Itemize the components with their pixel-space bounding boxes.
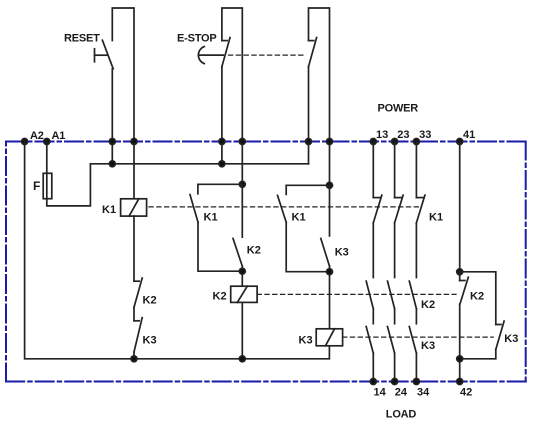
fuse F xyxy=(43,173,52,198)
svg-text:K1: K1 xyxy=(204,212,218,224)
svg-text:14: 14 xyxy=(374,387,387,399)
svg-text:K2: K2 xyxy=(213,291,227,303)
wire loop1 top (RESET branch) xyxy=(111,69,113,164)
e-stop contact 1 (NC) xyxy=(222,38,230,67)
node 41 branch split xyxy=(457,269,463,275)
svg-text:K1: K1 xyxy=(292,212,306,224)
relay coil K2 xyxy=(231,286,257,302)
svg-text:24: 24 xyxy=(395,387,408,399)
wire A1 to fuse to control rail xyxy=(47,142,309,206)
svg-text:A1: A1 xyxy=(52,130,66,142)
mechanical link K1 (dashed) xyxy=(149,206,421,208)
terminal A1 xyxy=(44,139,50,145)
node top of K2 group xyxy=(239,181,245,187)
svg-text:K1: K1 xyxy=(429,212,443,224)
svg-text:K1: K1 xyxy=(102,204,116,216)
terminal 23 xyxy=(392,139,398,145)
svg-text:K3: K3 xyxy=(421,340,435,352)
svg-text:K2: K2 xyxy=(470,291,484,303)
e-stop mushroom actuator xyxy=(198,47,223,64)
node: e-stop leg joins control rail xyxy=(219,161,225,167)
svg-text:K2: K2 xyxy=(143,295,157,307)
node K3 feed boundary dot xyxy=(327,139,333,145)
terminal 41 xyxy=(457,139,463,145)
mechanical link e-stop (dashed) xyxy=(229,54,307,56)
wire to K2 coil xyxy=(241,266,243,286)
wire to bus xyxy=(133,352,135,359)
pushbutton RESET (NO contact) xyxy=(95,40,114,69)
svg-text:K3: K3 xyxy=(504,333,518,345)
contact K2 NO (self-hold) xyxy=(233,238,242,266)
node K1 coil feed boundary dot xyxy=(131,139,137,145)
wire K1 branch lower xyxy=(133,216,135,281)
wire A2 return bus xyxy=(25,142,330,359)
svg-text:RESET: RESET xyxy=(64,33,100,45)
svg-text:K3: K3 xyxy=(335,247,349,259)
node K2 coil to bus xyxy=(239,356,245,362)
e-stop contact 2 (NC) xyxy=(309,38,317,67)
svg-text:F: F xyxy=(33,179,40,193)
svg-text:K3: K3 xyxy=(299,334,313,346)
svg-text:K3: K3 xyxy=(143,335,157,347)
node e-stop leg 2 boundary dot xyxy=(306,139,312,145)
terminal 24 xyxy=(392,379,398,385)
power column 23-24 xyxy=(388,142,404,382)
terminal 34 xyxy=(413,379,419,385)
feedback branch 41-42 xyxy=(459,142,461,272)
node: reset leg joins control rail xyxy=(109,161,115,167)
wire right branch of K3 group xyxy=(329,185,331,236)
terminal 14 xyxy=(370,379,376,385)
svg-text:41: 41 xyxy=(463,129,475,141)
wire K2 group frame xyxy=(198,184,242,194)
contact K1 NO (aux, right group) xyxy=(278,195,287,222)
wire loop2 (E-STOP branch 1) xyxy=(221,67,223,164)
terminal 42 xyxy=(457,379,463,385)
svg-text:33: 33 xyxy=(419,129,431,141)
node reset leg boundary dot xyxy=(109,139,115,145)
terminal 13 xyxy=(370,139,376,145)
relay coil K3 xyxy=(316,329,342,346)
svg-text:K2: K2 xyxy=(421,299,435,311)
power column 13-14 xyxy=(366,142,382,382)
contact K3 NC in K1 branch xyxy=(134,318,142,352)
bypass wire with contact K3 xyxy=(460,272,504,359)
contact K2 in 41-42 branch xyxy=(460,272,469,382)
power column 33-34 xyxy=(409,142,425,382)
svg-text:34: 34 xyxy=(417,387,430,399)
mechanical link K3 (dashed) xyxy=(343,336,494,338)
svg-text:POWER: POWER xyxy=(378,103,419,115)
terminal A2 xyxy=(22,139,28,145)
svg-text:42: 42 xyxy=(460,387,472,399)
wire K2 coil to bus xyxy=(241,302,243,358)
svg-text:LOAD: LOAD xyxy=(386,409,417,421)
node K1 branch to bus xyxy=(131,356,137,362)
contact K1 NO (aux, middle group) xyxy=(190,195,198,223)
node e-stop leg boundary dot xyxy=(219,139,225,145)
node 42 rejoin xyxy=(457,356,463,362)
node K2 feed boundary dot xyxy=(239,139,245,145)
node bottom of K3 group xyxy=(327,269,333,275)
relay coil K1 xyxy=(121,199,147,216)
node bottom of K2 group xyxy=(239,268,245,274)
contact K2 NC in K1 branch xyxy=(134,278,142,307)
wire loop3 (E-STOP branch 2) xyxy=(308,67,310,164)
svg-text:13: 13 xyxy=(376,129,388,141)
wire right branch of K2 group xyxy=(241,184,243,237)
mechanical link K2 (dashed) xyxy=(257,293,456,295)
wire K3 group frame xyxy=(286,185,329,194)
wire xyxy=(133,307,135,321)
svg-text:23: 23 xyxy=(397,129,409,141)
contact K3 NO (self-hold) xyxy=(321,238,330,266)
node top of K3 group xyxy=(327,182,333,188)
wire to K3 coil xyxy=(329,266,331,329)
module boundary (safety relay, blue dash-dot box) xyxy=(6,142,526,382)
svg-text:A2: A2 xyxy=(30,130,44,142)
svg-text:E-STOP: E-STOP xyxy=(177,33,217,45)
svg-text:K2: K2 xyxy=(247,245,261,257)
terminal 33 xyxy=(413,139,419,145)
